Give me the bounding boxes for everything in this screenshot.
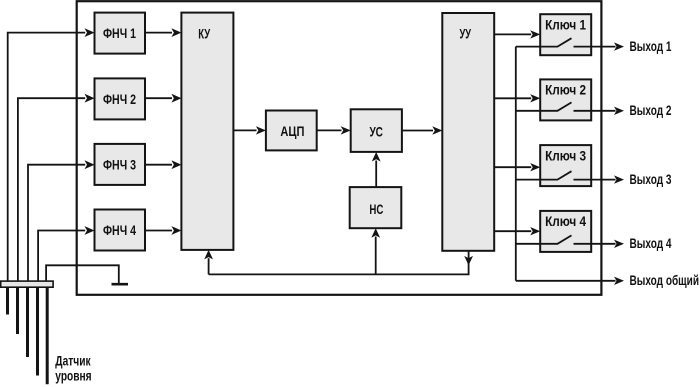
block Ключ 1 xyxy=(540,14,591,55)
wire common bus vertical xyxy=(515,47,517,281)
svg-text:ФНЧ 3: ФНЧ 3 xyxy=(103,156,136,172)
sensor electrode 3 xyxy=(26,287,29,357)
svg-text:ФНЧ 4: ФНЧ 4 xyxy=(103,222,136,238)
wire ФНЧ2 to КУ xyxy=(145,94,181,103)
block ФНЧ2 xyxy=(95,78,146,119)
svg-text:АЦП: АЦП xyxy=(280,123,304,139)
block НС xyxy=(350,187,402,228)
wire feedback up to КУ xyxy=(204,250,213,275)
svg-text:Ключ 1: Ключ 1 xyxy=(545,16,586,32)
wire Ключ 2 to Выход 2 xyxy=(591,107,624,115)
wire АЦП to УС xyxy=(317,126,351,134)
block Ключ 2 xyxy=(540,79,591,120)
label Датчик уровня xyxy=(55,352,91,383)
wire УУ control to Ключ 4 xyxy=(494,227,540,235)
wire ФНЧ1 to КУ xyxy=(145,28,181,37)
wire УУ control to Ключ 2 xyxy=(494,94,540,102)
svg-text:ФНЧ 2: ФНЧ 2 xyxy=(103,91,136,107)
block Ключ 3 xyxy=(540,145,591,186)
sensor electrode 2 xyxy=(16,287,19,334)
wire ФНЧ3 to КУ xyxy=(145,160,181,169)
sensor electrode 5 xyxy=(46,287,49,384)
block УС xyxy=(351,109,402,152)
block ФНЧ3 xyxy=(95,144,146,185)
wire Ключ 4 to Выход 4 xyxy=(591,240,624,248)
wire УС to УУ xyxy=(402,126,442,134)
wire КУ to АЦП xyxy=(233,126,266,134)
block АЦП xyxy=(266,111,317,151)
svg-text:УС: УС xyxy=(369,123,383,139)
block Ключ 4 xyxy=(540,211,591,252)
svg-text:Ключ 2: Ключ 2 xyxy=(545,82,586,98)
wire common bus stub to Ключ 3 xyxy=(516,179,540,181)
block КУ (коммутатор) xyxy=(181,13,233,250)
svg-text:КУ: КУ xyxy=(198,25,210,41)
svg-text:Выход 1: Выход 1 xyxy=(630,38,672,54)
svg-text:Выход общий: Выход общий xyxy=(630,272,700,288)
svg-text:НС: НС xyxy=(369,201,383,217)
wire common bus stub to Ключ 2 xyxy=(516,110,540,112)
wire НС to УС xyxy=(372,152,381,187)
wire feedback branch up to НС xyxy=(371,228,380,274)
block ФНЧ1 xyxy=(95,13,146,54)
wire УУ feedback down xyxy=(209,251,473,275)
wire input 1 to ФНЧ1 xyxy=(8,28,95,281)
ground symbol xyxy=(112,283,129,286)
wire ФНЧ4 to КУ xyxy=(145,226,181,235)
svg-text:Выход 4: Выход 4 xyxy=(630,235,672,251)
wire input 3 to ФНЧ3 xyxy=(28,160,95,281)
block ФНЧ4 xyxy=(95,210,146,251)
wire УУ control to Ключ 1 xyxy=(494,30,540,38)
label Выход 4 xyxy=(630,235,672,251)
wire Ключ 3 to Выход 3 xyxy=(591,175,624,183)
wire Ключ 1 to Выход 1 xyxy=(591,42,624,50)
label Выход общий xyxy=(630,272,700,288)
wire common bus stub to Ключ 1 xyxy=(516,46,540,48)
svg-text:Датчик: Датчик xyxy=(55,352,91,368)
wire input 2 to ФНЧ2 xyxy=(18,94,95,281)
sensor head bar xyxy=(1,281,53,287)
wire input 4 to ФНЧ4 xyxy=(38,226,94,281)
svg-text:уровня: уровня xyxy=(55,368,91,384)
sensor electrode 1 xyxy=(6,287,9,314)
label Выход 1 xyxy=(630,38,672,54)
label Выход 2 xyxy=(630,102,672,118)
device enclosure box xyxy=(77,1,602,295)
wire УУ control to Ключ 3 xyxy=(494,163,540,171)
block УУ (устройство управления) xyxy=(442,13,494,251)
sensor electrode 4 xyxy=(36,287,39,375)
svg-text:Выход 2: Выход 2 xyxy=(630,102,672,118)
svg-text:Выход 3: Выход 3 xyxy=(630,171,672,187)
svg-text:Ключ 4: Ключ 4 xyxy=(545,213,586,229)
label Выход 3 xyxy=(630,171,672,187)
wire common bus to Выход общий xyxy=(516,277,624,285)
svg-text:Ключ 3: Ключ 3 xyxy=(545,147,586,163)
svg-text:УУ: УУ xyxy=(460,26,472,42)
wire common bus stub to Ключ 4 xyxy=(516,243,540,245)
svg-text:ФНЧ 1: ФНЧ 1 xyxy=(103,25,136,41)
wire sensor common to ground xyxy=(46,265,119,283)
